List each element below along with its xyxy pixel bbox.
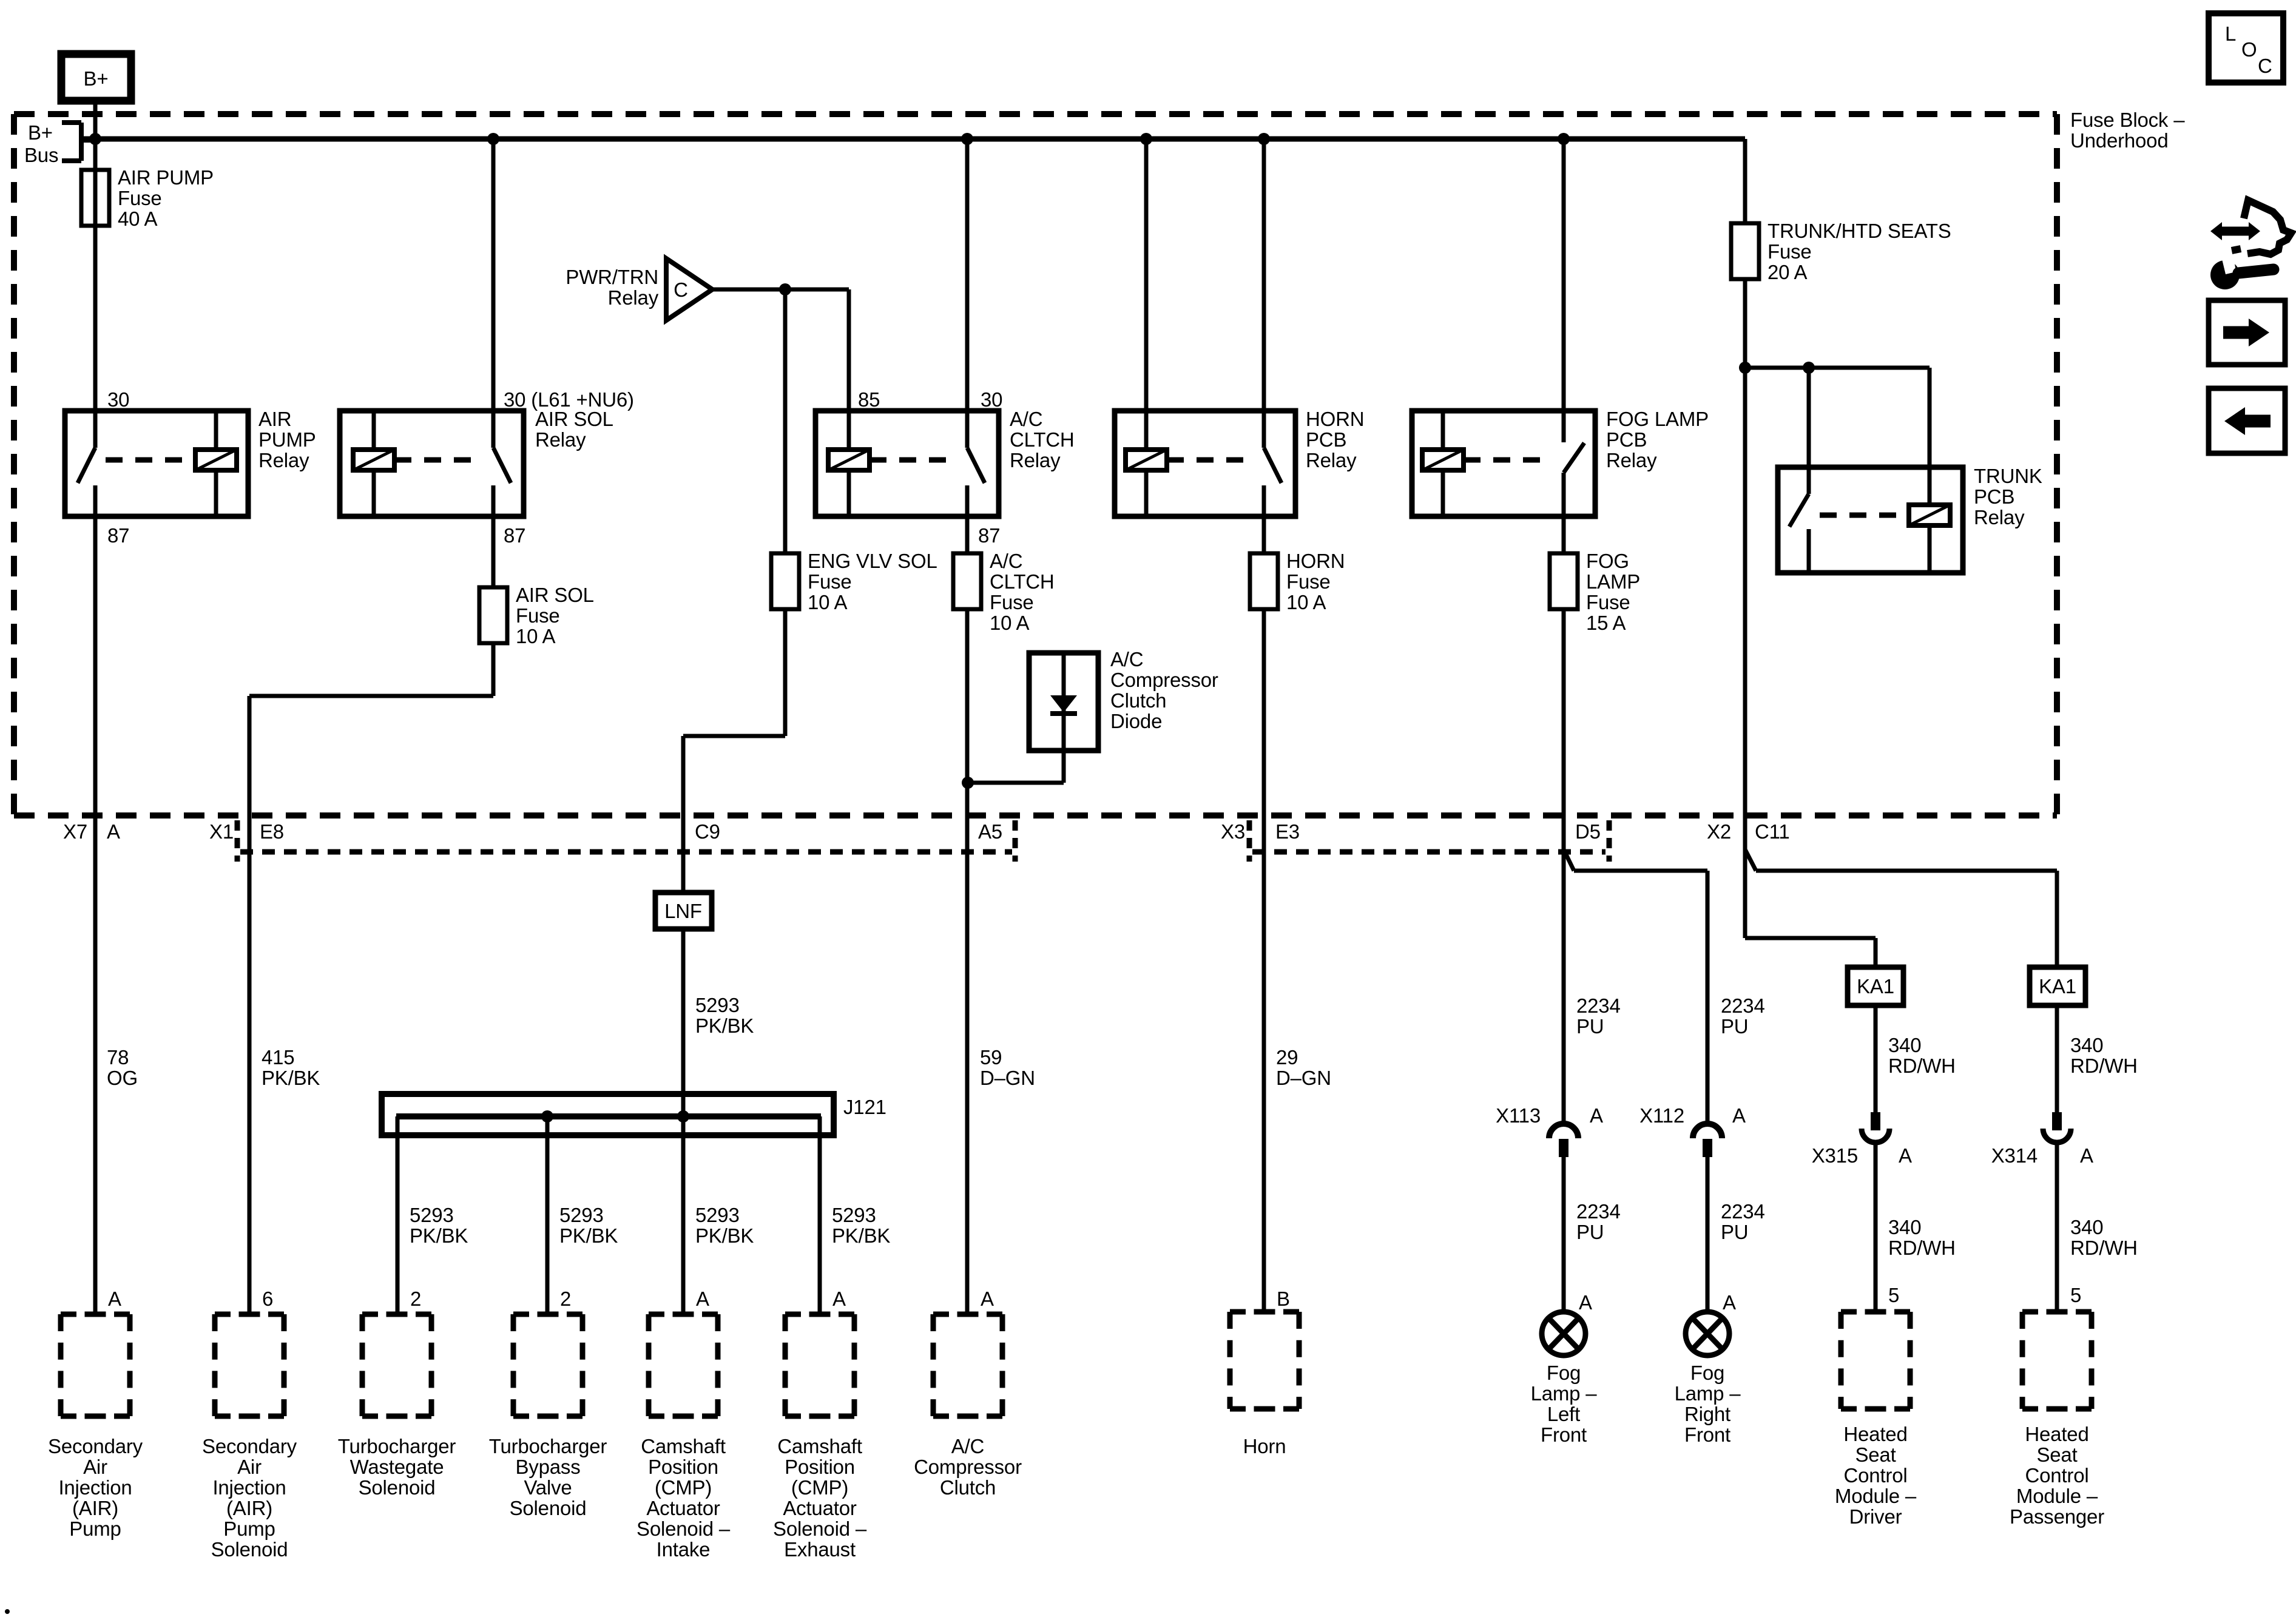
svg-text:E8: E8 <box>260 820 284 843</box>
svg-text:Fog: Fog <box>1690 1362 1724 1384</box>
switch lower stub <box>965 485 970 516</box>
svg-text:Fuse: Fuse <box>1586 591 1630 613</box>
component Secondary Air Injection (AIR) Pump Solenoid <box>215 1312 284 1317</box>
wire 2234 PU to X112 <box>1706 871 1710 1122</box>
wire PWR/TRN output <box>712 288 849 292</box>
svg-text:PUMP: PUMP <box>258 428 316 451</box>
svg-text:PCB: PCB <box>1606 428 1647 451</box>
svg-text:PK/BK: PK/BK <box>262 1067 320 1089</box>
svg-text:X1: X1 <box>209 820 234 843</box>
svg-text:10 A: 10 A <box>516 625 555 647</box>
svg-text:PCB: PCB <box>1974 485 2014 508</box>
icon arrow-right box <box>2209 300 2285 365</box>
svg-text:10 A: 10 A <box>808 591 847 613</box>
svg-text:2234: 2234 <box>1721 994 1765 1017</box>
wire to trunk relay switch <box>1807 368 1811 467</box>
icon arrow-left box <box>2209 388 2285 453</box>
connector KA1 driver <box>1848 967 1903 1005</box>
svg-text:Fuse Block –: Fuse Block – <box>2070 109 2185 131</box>
svg-text:Position: Position <box>785 1456 855 1478</box>
svg-text:X314: X314 <box>1991 1144 2038 1167</box>
connector boundary dotted lines <box>240 849 1012 855</box>
relay coil <box>828 450 869 470</box>
svg-text:Position: Position <box>648 1456 718 1478</box>
component Secondary Air Injection (AIR) Pump <box>61 1312 130 1317</box>
svg-text:C9: C9 <box>695 820 720 843</box>
svg-text:D–GN: D–GN <box>1276 1067 1331 1089</box>
svg-text:AIR PUMP: AIR PUMP <box>118 166 214 189</box>
wire slant at D5 <box>1564 849 1574 871</box>
svg-text:Heated: Heated <box>2025 1423 2088 1445</box>
bus junction x=813 <box>487 133 499 145</box>
switch blade <box>967 448 985 483</box>
switch blade <box>493 448 511 483</box>
B+ battery terminal box <box>61 54 131 101</box>
svg-text:Lamp –: Lamp – <box>1531 1382 1598 1405</box>
svg-text:2234: 2234 <box>1576 994 1621 1017</box>
svg-text:A: A <box>832 1288 846 1310</box>
wire 2234 PU to X113 <box>1562 609 1566 1122</box>
wire below AIR SOL fuse <box>491 643 496 696</box>
svg-text:Module –: Module – <box>1835 1485 1917 1507</box>
svg-text:B: B <box>1277 1288 1290 1310</box>
svg-text:PK/BK: PK/BK <box>559 1224 618 1247</box>
svg-text:Horn: Horn <box>1243 1435 1286 1457</box>
svg-text:FOG: FOG <box>1586 550 1629 572</box>
svg-text:X113: X113 <box>1496 1104 1541 1127</box>
diode cathode bar <box>1050 711 1077 716</box>
junction trunk relay feed <box>1739 362 1751 374</box>
svg-text:Control: Control <box>1844 1464 1908 1487</box>
icon LOC box <box>2209 13 2283 83</box>
relay coil <box>353 450 394 470</box>
bus junction x=2083 <box>1258 133 1270 145</box>
component Turbocharger Bypass Valve Solenoid <box>513 1312 582 1317</box>
Fuse Block - Underhood dashed border <box>14 111 2057 117</box>
svg-text:Camshaft: Camshaft <box>641 1435 726 1457</box>
bus junction x=157 <box>89 133 101 145</box>
svg-text:PU: PU <box>1576 1015 1604 1038</box>
svg-text:40 A: 40 A <box>118 208 157 230</box>
splice pack J121 <box>382 1094 834 1135</box>
switch lower stub <box>1807 529 1811 573</box>
svg-text:Right: Right <box>1684 1403 1730 1425</box>
switch input stub <box>1807 467 1811 494</box>
switch input stub <box>965 411 970 448</box>
svg-text:(AIR): (AIR) <box>226 1497 272 1519</box>
svg-text:2: 2 <box>560 1288 571 1310</box>
fuse AIR PUMP 40A <box>81 170 109 226</box>
J121 internal bus <box>396 1113 821 1119</box>
relay actuation dashed link <box>106 457 195 463</box>
coil top lead <box>1144 411 1149 450</box>
switch lower stub <box>491 485 496 516</box>
svg-text:Front: Front <box>1684 1423 1730 1446</box>
svg-text:Seat: Seat <box>2036 1443 2077 1466</box>
switch input stub <box>1562 411 1566 442</box>
junction diode/AC wire <box>962 777 974 789</box>
wire to right KA1 <box>1756 869 2057 873</box>
wire 29 D-GN to horn <box>1262 609 1266 1314</box>
svg-text:Relay: Relay <box>258 449 309 471</box>
svg-text:10 A: 10 A <box>1286 591 1326 613</box>
svg-text:A: A <box>981 1288 994 1310</box>
switch blade <box>1264 448 1281 483</box>
svg-text:CLTCH: CLTCH <box>1010 428 1075 451</box>
wire 2234 PU to right fog lamp <box>1706 1157 1710 1312</box>
relay actuation dashed link <box>869 457 956 463</box>
svg-text:415: 415 <box>262 1046 294 1068</box>
svg-text:Fuse: Fuse <box>1768 240 1812 263</box>
svg-text:A5: A5 <box>978 820 1002 843</box>
svg-text:Exhaust: Exhaust <box>784 1538 856 1561</box>
svg-text:2234: 2234 <box>1721 1200 1765 1223</box>
svg-text:Relay: Relay <box>1974 506 2025 528</box>
switch blade <box>78 448 95 483</box>
svg-text:Air: Air <box>237 1456 262 1478</box>
coil top lead <box>1441 411 1445 450</box>
fuse FOG LAMP 15A <box>1550 553 1578 609</box>
wire to left KA1 <box>1745 936 1876 940</box>
svg-text:A: A <box>1579 1291 1592 1314</box>
svg-text:Heated: Heated <box>1843 1423 1907 1445</box>
svg-text:5293: 5293 <box>410 1204 454 1226</box>
svg-text:Actuator: Actuator <box>783 1497 857 1519</box>
svg-text:TRUNK/HTD SEATS: TRUNK/HTD SEATS <box>1768 220 1951 242</box>
svg-text:PK/BK: PK/BK <box>410 1224 468 1247</box>
component CMP Actuator Solenoid Intake <box>649 1312 718 1317</box>
svg-text:KA1: KA1 <box>2039 975 2076 998</box>
switch lower stub <box>93 485 98 516</box>
svg-text:C: C <box>674 279 688 301</box>
switch blade <box>1564 443 1584 473</box>
svg-text:FOG LAMP: FOG LAMP <box>1606 408 1709 430</box>
switch lower stub <box>1562 473 1566 516</box>
svg-text:D5: D5 <box>1575 820 1601 843</box>
fuse AIR SOL 10A <box>479 587 507 643</box>
svg-text:2: 2 <box>410 1288 421 1310</box>
svg-text:CLTCH: CLTCH <box>990 570 1055 593</box>
svg-text:Relay: Relay <box>608 286 659 309</box>
connector X314 <box>2052 1112 2062 1130</box>
svg-text:HORN: HORN <box>1306 408 1364 430</box>
svg-text:Fuse: Fuse <box>118 187 162 209</box>
svg-text:Lamp –: Lamp – <box>1675 1382 1741 1405</box>
svg-text:KA1: KA1 <box>1857 975 1894 998</box>
relay actuation dashed link <box>1167 457 1253 463</box>
switch input stub <box>491 411 496 448</box>
wire B+ to bus <box>93 101 98 139</box>
switch input stub <box>1262 411 1266 448</box>
svg-text:B+: B+ <box>84 67 109 90</box>
wire 5293 PK/BK through J121 to CMP intake <box>681 929 686 1314</box>
connector tick x=1673 <box>1013 820 1018 862</box>
svg-text:Left: Left <box>1547 1403 1580 1425</box>
svg-text:10 A: 10 A <box>990 612 1029 634</box>
svg-text:340: 340 <box>2070 1034 2103 1056</box>
svg-text:A/C: A/C <box>990 550 1022 572</box>
svg-text:PK/BK: PK/BK <box>695 1014 754 1037</box>
svg-text:340: 340 <box>1888 1034 1921 1056</box>
svg-text:C: C <box>2258 55 2272 77</box>
svg-text:Module –: Module – <box>2016 1485 2098 1507</box>
svg-text:Injection: Injection <box>212 1476 286 1499</box>
junction J121 <box>541 1110 553 1122</box>
relay coil <box>1909 505 1950 525</box>
svg-text:Relay: Relay <box>535 428 586 451</box>
svg-text:Bus: Bus <box>24 144 58 166</box>
svg-text:AIR: AIR <box>258 408 291 430</box>
wire jog left <box>683 734 785 738</box>
svg-text:Solenoid –: Solenoid – <box>636 1517 731 1540</box>
component Turbocharger Wastegate Solenoid <box>362 1312 431 1317</box>
svg-text:5293: 5293 <box>559 1204 604 1226</box>
svg-text:Air: Air <box>83 1456 107 1478</box>
svg-text:A: A <box>696 1288 709 1310</box>
wire 415 PK/BK down <box>248 696 252 1314</box>
svg-text:A: A <box>1732 1104 1746 1127</box>
svg-text:Relay: Relay <box>1010 449 1061 471</box>
diode return wire <box>1062 751 1066 783</box>
svg-text:D–GN: D–GN <box>980 1067 1035 1089</box>
svg-text:Solenoid –: Solenoid – <box>773 1517 867 1540</box>
svg-text:87: 87 <box>978 524 1000 547</box>
svg-text:Diode: Diode <box>1110 710 1162 732</box>
connector KA1 passenger <box>2030 967 2085 1005</box>
svg-text:PK/BK: PK/BK <box>695 1224 754 1247</box>
relay actuation dashed link <box>1464 457 1551 463</box>
coil bottom lead <box>372 470 376 516</box>
fuse ENG VLV SOL 10A <box>771 553 799 609</box>
svg-text:(CMP): (CMP) <box>655 1476 712 1499</box>
svg-text:Seat: Seat <box>1855 1443 1896 1466</box>
svg-text:85: 85 <box>858 388 880 411</box>
wire to right fog lamp branch <box>1574 869 1707 873</box>
svg-text:A/C: A/C <box>951 1435 984 1457</box>
connector X112 <box>1693 1124 1722 1138</box>
svg-text:5293: 5293 <box>695 1204 740 1226</box>
wire below ENG VLV SOL fuse <box>783 609 788 736</box>
svg-text:HORN: HORN <box>1286 550 1345 572</box>
connector X315 <box>1871 1112 1880 1130</box>
svg-text:Clutch: Clutch <box>1110 689 1166 712</box>
svg-text:Fuse: Fuse <box>808 570 852 593</box>
relay TRUNK PCB <box>1778 467 1963 573</box>
wire to fog lamp fuse <box>1562 516 1566 553</box>
svg-text:6: 6 <box>262 1288 273 1310</box>
component A/C Compressor Clutch <box>933 1312 1002 1317</box>
wire 2234 PU to left fog lamp <box>1562 1157 1566 1312</box>
wire 340 RD/WH to passenger module <box>2055 1145 2059 1312</box>
svg-text:2234: 2234 <box>1576 1200 1621 1223</box>
component Heated Seat Control Module Driver <box>1841 1309 1910 1315</box>
svg-text:A: A <box>108 1288 121 1310</box>
svg-text:RD/WH: RD/WH <box>1888 1055 1956 1077</box>
connector tick x=2059 <box>1247 820 1252 862</box>
svg-text:Passenger: Passenger <box>2010 1505 2104 1528</box>
svg-text:C11: C11 <box>1755 820 1790 843</box>
svg-text:Relay: Relay <box>1306 449 1357 471</box>
svg-text:A: A <box>1590 1104 1603 1127</box>
relay coil <box>195 450 237 470</box>
coil bottom lead <box>214 470 218 516</box>
svg-text:A/C: A/C <box>1010 408 1042 430</box>
wire 59 D-GN to compressor clutch <box>965 609 970 1314</box>
svg-text:L: L <box>2225 22 2236 45</box>
svg-text:E3: E3 <box>1275 820 1300 843</box>
svg-text:5293: 5293 <box>695 994 740 1016</box>
wire to ENG VLV SOL fuse <box>783 289 788 553</box>
coil bottom lead <box>1144 470 1149 516</box>
wire 340 RD/WH <box>1874 1005 1878 1112</box>
svg-text:RD/WH: RD/WH <box>2070 1055 2138 1077</box>
B+ bus wire <box>81 137 1745 142</box>
switch lower stub <box>1262 485 1266 516</box>
lamp Fog Lamp Left Front <box>1542 1312 1585 1355</box>
wire 78 OG to AIR pump <box>93 516 98 1314</box>
switch blade <box>1789 494 1809 527</box>
svg-text:30: 30 <box>981 388 1002 411</box>
relay actuation dashed link <box>1820 513 1908 518</box>
wire 5293 PK/BK to bypass valve solenoid <box>545 1116 550 1314</box>
svg-text:78: 78 <box>107 1046 129 1068</box>
period mark <box>5 1609 10 1614</box>
lamp Fog Lamp Right Front <box>1686 1312 1729 1355</box>
svg-text:J121: J121 <box>843 1096 886 1118</box>
svg-text:Compressor: Compressor <box>914 1456 1022 1478</box>
svg-text:ENG VLV SOL: ENG VLV SOL <box>808 550 937 572</box>
bus junction x=2577 <box>1558 133 1570 145</box>
component Horn <box>1230 1309 1299 1315</box>
svg-text:AIR SOL: AIR SOL <box>535 408 613 430</box>
svg-text:Solenoid: Solenoid <box>359 1476 436 1499</box>
svg-text:87: 87 <box>107 524 129 547</box>
svg-text:A/C: A/C <box>1110 648 1143 670</box>
junction trunk relay switch <box>1803 362 1815 374</box>
svg-text:5: 5 <box>2070 1284 2081 1306</box>
connector tick x=2652 <box>1607 820 1612 862</box>
coil bottom lead <box>1928 525 1932 573</box>
svg-text:Fuse: Fuse <box>990 591 1034 613</box>
svg-text:Fuse: Fuse <box>1286 570 1331 593</box>
svg-text:Clutch: Clutch <box>940 1476 996 1499</box>
svg-text:Solenoid: Solenoid <box>211 1538 288 1561</box>
bus junction x=1889 <box>1140 133 1152 145</box>
svg-text:Bypass: Bypass <box>515 1456 580 1478</box>
svg-text:RD/WH: RD/WH <box>1888 1237 1956 1259</box>
wire down to KA1 passenger <box>2055 871 2059 967</box>
relay coil <box>1126 450 1167 470</box>
diode internal wire <box>1062 653 1066 751</box>
svg-text:Intake: Intake <box>657 1538 711 1561</box>
svg-text:X3: X3 <box>1221 820 1245 843</box>
svg-text:29: 29 <box>1276 1046 1298 1068</box>
svg-text:A: A <box>1723 1291 1736 1314</box>
diode return to A/C wire <box>968 781 1064 785</box>
svg-text:340: 340 <box>2070 1216 2103 1238</box>
coil bottom lead <box>847 470 851 516</box>
svg-text:PU: PU <box>1576 1221 1604 1243</box>
component Heated Seat Control Module Passenger <box>2022 1309 2092 1315</box>
svg-text:20 A: 20 A <box>1768 261 1807 283</box>
svg-text:Secondary: Secondary <box>202 1435 297 1457</box>
fuse TRUNK/HTD SEATS 20A <box>1731 223 1759 279</box>
wire 5293 PK/BK to CMP exhaust solenoid <box>818 1116 822 1314</box>
fuse HORN 10A <box>1250 553 1278 609</box>
svg-text:PU: PU <box>1721 1015 1748 1038</box>
svg-text:LNF: LNF <box>664 900 702 922</box>
bus junction x=1594 <box>961 133 973 145</box>
wire 340 RD/WH <box>2055 1005 2059 1112</box>
wire relay87 to AIR SOL fuse <box>491 516 496 587</box>
svg-text:Turbocharger: Turbocharger <box>489 1435 607 1457</box>
wire bus to horn relay coil <box>1144 139 1149 411</box>
svg-text:59: 59 <box>980 1046 1002 1068</box>
svg-text:LAMP: LAMP <box>1586 570 1640 593</box>
svg-text:5293: 5293 <box>832 1204 876 1226</box>
svg-text:OG: OG <box>107 1067 138 1089</box>
svg-text:A: A <box>107 820 120 843</box>
wire to horn fuse <box>1262 516 1266 553</box>
svg-text:Actuator: Actuator <box>646 1497 720 1519</box>
coil bottom lead <box>1441 470 1445 516</box>
wire to A/C relay pin85 <box>847 289 851 411</box>
svg-text:Valve: Valve <box>524 1476 572 1499</box>
svg-text:A: A <box>1899 1144 1912 1167</box>
wire bus to fog relay pin30 <box>1562 139 1566 411</box>
svg-text:Turbocharger: Turbocharger <box>338 1435 456 1457</box>
svg-text:PU: PU <box>1721 1221 1748 1243</box>
svg-text:B+: B+ <box>28 121 53 144</box>
wire 5293 PK/BK to wastegate solenoid <box>396 1116 400 1314</box>
wire relay87 to fuse <box>965 516 970 553</box>
PWR/TRN Relay feed triangle C <box>666 258 712 320</box>
connector tick x=391 <box>235 820 240 862</box>
wire slant at C11 <box>1745 849 1756 871</box>
svg-text:TRUNK: TRUNK <box>1974 465 2042 487</box>
wire to trunk relay <box>1745 366 1930 370</box>
wire to LNF option box <box>681 736 686 893</box>
svg-text:Pump: Pump <box>223 1517 275 1540</box>
svg-text:Compressor: Compressor <box>1110 669 1218 691</box>
option box LNF <box>655 893 712 929</box>
svg-text:Fuse: Fuse <box>516 604 560 627</box>
svg-text:O: O <box>2241 38 2257 61</box>
svg-text:AIR SOL: AIR SOL <box>516 584 594 606</box>
bus corner down to trunk fuse <box>1743 139 1747 223</box>
svg-text:X315: X315 <box>1812 1144 1858 1167</box>
svg-text:Wastegate: Wastegate <box>350 1456 444 1478</box>
svg-text:Fog: Fog <box>1547 1362 1581 1384</box>
svg-text:15 A: 15 A <box>1586 612 1626 634</box>
svg-text:Front: Front <box>1541 1423 1587 1446</box>
wire jog left <box>249 694 493 698</box>
svg-text:30: 30 <box>107 388 129 411</box>
svg-text:RD/WH: RD/WH <box>2070 1237 2138 1259</box>
wire to trunk relay coil <box>1928 368 1932 467</box>
component CMP Actuator Solenoid Exhaust <box>785 1312 854 1317</box>
svg-text:X112: X112 <box>1639 1104 1684 1127</box>
svg-text:PCB: PCB <box>1306 428 1346 451</box>
junction J121 <box>677 1110 689 1122</box>
svg-text:X2: X2 <box>1707 820 1731 843</box>
wire 340 RD/WH to driver module <box>1874 1145 1878 1312</box>
wire bus to AIR PUMP relay pin30 <box>93 139 98 411</box>
svg-text:Secondary: Secondary <box>48 1435 143 1457</box>
svg-text:Driver: Driver <box>1849 1505 1902 1528</box>
svg-text:87: 87 <box>504 524 525 547</box>
svg-text:Pump: Pump <box>69 1517 121 1540</box>
